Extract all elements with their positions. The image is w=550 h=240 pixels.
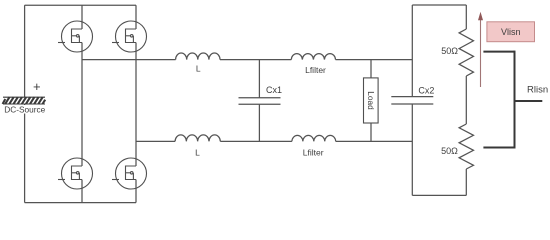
wire phase A output segment 3 bbox=[336, 59, 413, 61]
svg-text:Lfilter: Lfilter bbox=[303, 148, 324, 158]
Vlisn measurement arrow bbox=[478, 12, 483, 87]
svg-text:Rlisn: Rlisn bbox=[527, 85, 548, 96]
wire DC source negative lead bbox=[24, 104, 26, 203]
svg-text:Cx1: Cx1 bbox=[266, 85, 282, 95]
wire right leg lower (Q4 source) bbox=[135, 180, 137, 203]
transistor Q4 (bottom-right MOSFET) bbox=[112, 158, 147, 189]
svg-text:L: L bbox=[195, 148, 200, 158]
wire bottom DC rail bbox=[25, 202, 136, 204]
transistor Q1 (top-left MOSFET) bbox=[58, 21, 93, 52]
wire right leg upper (Q2 drain) bbox=[135, 5, 137, 29]
svg-text:+: + bbox=[33, 79, 41, 94]
svg-text:Load: Load bbox=[366, 91, 376, 110]
wire right leg middle (Q2 source to Q4 drain) bbox=[135, 43, 137, 167]
svg-text:Lfilter: Lfilter bbox=[305, 65, 326, 75]
inductor Lfilter top bbox=[291, 54, 335, 60]
wire Cx1 upper lead bbox=[258, 60, 260, 98]
DC-Source battery hatch bar bbox=[3, 97, 46, 104]
wire phase B output segment 2 bbox=[220, 140, 292, 142]
Rlisn measurement bracket bbox=[483, 51, 542, 149]
inductor L bottom bbox=[175, 135, 220, 142]
wire Load lower lead bbox=[370, 123, 372, 141]
wire top resistor upper lead bbox=[465, 5, 467, 29]
wire bottom resistor lower lead bbox=[465, 169, 467, 195]
svg-text:DC-Source: DC-Source bbox=[4, 104, 45, 114]
wire phase B output segment 3 bbox=[336, 140, 413, 142]
capacitor Cx1 plates bbox=[239, 98, 281, 105]
wire Load upper lead bbox=[370, 60, 372, 78]
wire Cx2 lower lead (LISN left branch) bbox=[411, 104, 413, 195]
inductor L top bbox=[176, 53, 220, 60]
wire LISN top bbox=[412, 4, 466, 6]
resistor Load box bbox=[364, 78, 379, 123]
wire Cx1 lower lead bbox=[258, 104, 260, 141]
wire top DC rail bbox=[25, 4, 136, 6]
svg-text:Vlisn: Vlisn bbox=[501, 27, 521, 37]
label DC-Source bbox=[2, 104, 48, 114]
capacitor Cx2 plates bbox=[391, 97, 433, 104]
wire between resistors bbox=[465, 76, 467, 124]
transistor Q2 (top-right MOSFET) bbox=[112, 21, 147, 52]
svg-text:Cx2: Cx2 bbox=[418, 86, 434, 96]
wire phase A output segment 2 bbox=[220, 59, 291, 61]
wire left leg middle (Q1 source to Q3 drain) bbox=[81, 43, 83, 167]
wire LISN bottom bbox=[412, 194, 466, 196]
wire DC source positive lead bbox=[24, 5, 26, 97]
wire left leg upper (Q1 drain) bbox=[81, 5, 83, 29]
wire phase B output segment 1 bbox=[136, 140, 175, 142]
wire left leg lower (Q3 source) bbox=[81, 180, 83, 203]
wire phase A output segment 1 bbox=[82, 59, 176, 61]
wire Cx2 upper lead (LISN left branch) bbox=[411, 5, 413, 97]
inductor Lfilter bottom bbox=[292, 135, 336, 141]
resistor 50ohm top bbox=[459, 29, 473, 76]
Vlisn label box bbox=[487, 22, 535, 42]
svg-text:50Ω: 50Ω bbox=[441, 146, 458, 156]
transistor Q3 (bottom-left MOSFET) bbox=[58, 158, 93, 189]
resistor 50ohm bottom bbox=[459, 124, 473, 169]
svg-text:50Ω: 50Ω bbox=[441, 46, 458, 56]
svg-text:L: L bbox=[196, 64, 201, 74]
